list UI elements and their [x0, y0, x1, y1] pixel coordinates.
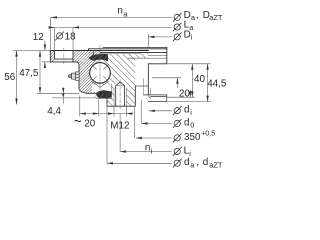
svg-text:d: d	[184, 117, 190, 128]
svg-text:i: i	[151, 147, 153, 156]
svg-text:d: d	[184, 105, 190, 116]
svg-text:D: D	[184, 29, 191, 40]
svg-text:n: n	[145, 143, 151, 154]
svg-text:~: ~	[74, 114, 82, 129]
svg-text:aZT: aZT	[209, 13, 223, 22]
svg-text:i: i	[190, 108, 192, 117]
svg-text:4,4: 4,4	[47, 106, 61, 117]
svg-text:0: 0	[190, 121, 194, 130]
svg-text:M12: M12	[110, 120, 129, 131]
svg-text:n: n	[117, 5, 123, 16]
svg-text:+0,5: +0,5	[201, 131, 215, 138]
svg-text:d: d	[184, 157, 190, 168]
svg-text:20: 20	[84, 118, 95, 129]
svg-text:44,5: 44,5	[207, 79, 227, 90]
svg-text:40: 40	[194, 74, 205, 85]
svg-text:d: d	[203, 157, 209, 168]
svg-text:350: 350	[184, 132, 201, 143]
svg-text:47,5: 47,5	[19, 68, 39, 79]
svg-text:,: ,	[196, 10, 199, 21]
svg-text:18: 18	[65, 32, 76, 43]
svg-text:20: 20	[179, 88, 190, 99]
svg-text:56: 56	[4, 72, 15, 83]
svg-text:aZT: aZT	[209, 161, 223, 170]
svg-text:a: a	[190, 161, 195, 170]
svg-text:12: 12	[33, 32, 44, 43]
svg-text:a: a	[123, 9, 128, 18]
svg-text:,: ,	[196, 157, 199, 168]
svg-text:i: i	[191, 33, 193, 42]
svg-text:i: i	[189, 149, 191, 158]
